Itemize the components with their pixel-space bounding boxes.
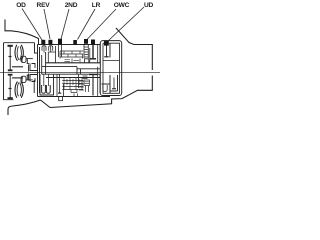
svg-text:2ND: 2ND xyxy=(65,2,78,9)
svg-text:LR: LR xyxy=(92,2,101,9)
svg-text:OD: OD xyxy=(16,2,26,9)
svg-text:OWC: OWC xyxy=(114,2,130,9)
svg-text:UD: UD xyxy=(144,2,154,9)
svg-text:REV: REV xyxy=(37,2,51,9)
